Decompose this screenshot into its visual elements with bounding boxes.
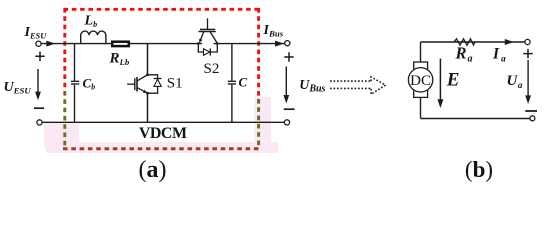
capacitor C branch upper wire (231, 44, 233, 81)
diode loop of S2 (198, 44, 217, 52)
svg-text:UESU: UESU (4, 80, 32, 96)
svg-text:Ra: Ra (455, 44, 473, 65)
arrowhead I_a (505, 39, 514, 45)
minus sign circuit b (525, 110, 537, 112)
svg-text:RLb: RLb (109, 51, 130, 68)
svg-text:S2: S2 (204, 61, 220, 77)
plus sign input (35, 52, 44, 61)
wire: circuit b bottom rail (421, 118, 530, 120)
capacitor C branch lower wire (231, 85, 233, 123)
terminal circuit b top right (525, 39, 530, 44)
svg-text:Ia: Ia (492, 46, 506, 65)
wire: circuit b left vertical lower (420, 97, 422, 118)
diode of S1 triangle (154, 79, 161, 86)
input terminal bottom left (37, 120, 42, 125)
transistor S1 body bar (136, 77, 138, 92)
capacitor Cb branch lower wire (74, 85, 76, 123)
minus sign input (34, 107, 44, 109)
svg-text:(b): (b) (465, 157, 493, 182)
svg-text:VDCM: VDCM (139, 125, 187, 142)
wire: circuit b top rail (421, 41, 526, 43)
dashed block arrow shaft bottom (330, 87, 371, 89)
svg-text:UBus: UBus (299, 78, 325, 95)
transistor S2 collector line (210, 32, 217, 43)
svg-text:E: E (446, 69, 460, 90)
plus sign circuit b (523, 49, 532, 58)
svg-text:C: C (239, 75, 248, 90)
output terminal bottom right (284, 120, 289, 125)
svg-text:S1: S1 (167, 76, 183, 92)
diode of S2 triangle (204, 49, 210, 56)
node S2 right junction (216, 42, 219, 45)
svg-text:(a): (a) (139, 157, 167, 183)
red dashed box right edge (upper, red) (257, 8, 260, 99)
pink highlight patch left corner (44, 123, 79, 146)
pink highlight band right edge (255, 97, 272, 153)
dashed box right edge (lower, olive) (257, 99, 260, 148)
transistor S1 gate stub (127, 83, 135, 85)
svg-text:Lb: Lb (84, 14, 98, 30)
inductor Lb (81, 31, 106, 44)
transistor S2 gate bar (200, 28, 215, 30)
input current arrowhead (46, 41, 55, 47)
svg-text:IBus: IBus (263, 23, 284, 39)
diode of S1 cathode bar (154, 78, 162, 80)
node S2 left junction (197, 42, 200, 45)
transistor S2 body bar (199, 31, 216, 33)
dashed block arrow shaft top (330, 80, 371, 82)
U_Bus arrow (285, 67, 287, 101)
node S1 bottom junction (146, 92, 149, 95)
capacitor Cb branch upper wire (74, 44, 76, 81)
wire: bottom rail (42, 121, 284, 123)
wire: top rail right of S2 (214, 43, 285, 45)
arrow E (439, 59, 441, 105)
dc machine rectangle (414, 62, 428, 97)
svg-text:IESU: IESU (24, 25, 48, 41)
dashed box bottom edge (brick red) (63, 147, 260, 150)
transistor S2 emitter line (200, 32, 204, 43)
input terminal top left (36, 41, 41, 46)
red dashed box top edge (64, 8, 260, 11)
svg-text:Ua: Ua (507, 73, 523, 90)
transistor S1 collector line (137, 75, 148, 81)
wire: top rail left section (41, 43, 202, 45)
resistor RLb (112, 42, 129, 46)
U_ESU arrow (37, 69, 39, 97)
transistor S1 emitter line (137, 88, 148, 94)
transistor S1 branch lower wire (147, 93, 149, 122)
resistor Ra zigzag (454, 39, 475, 45)
plus sign output (284, 52, 293, 61)
transistor S2 emitter arrowhead (199, 39, 202, 43)
capacitor C plates (228, 81, 236, 84)
minus sign output (284, 108, 295, 110)
capacitor Cb plates (71, 81, 79, 84)
transistor S1 branch upper wire (147, 44, 149, 75)
pink highlight band along bottom dashes (46, 142, 278, 153)
output current arrowhead (275, 41, 284, 47)
diode of S2 cathode bar (209, 48, 211, 55)
output terminal top right (285, 41, 290, 46)
svg-text:DC: DC (410, 73, 431, 89)
wire: circuit b left vertical upper (420, 42, 422, 63)
transistor S2 gate stub (207, 18, 209, 29)
svg-text:Cb: Cb (83, 75, 96, 91)
dashed block arrow head (371, 77, 386, 94)
dashed box left edge (lower, olive) (63, 91, 66, 148)
diode loop of S1 (148, 75, 158, 93)
red dashed box left edge (upper, red) (63, 8, 66, 91)
arrow U_a (527, 60, 529, 101)
transistor S1 emitter arrowhead (143, 90, 147, 93)
node S1 top junction (146, 73, 149, 76)
transistor S1 gate bar (134, 78, 136, 90)
terminal circuit b bottom right (530, 116, 535, 121)
dc machine circle (408, 68, 432, 92)
